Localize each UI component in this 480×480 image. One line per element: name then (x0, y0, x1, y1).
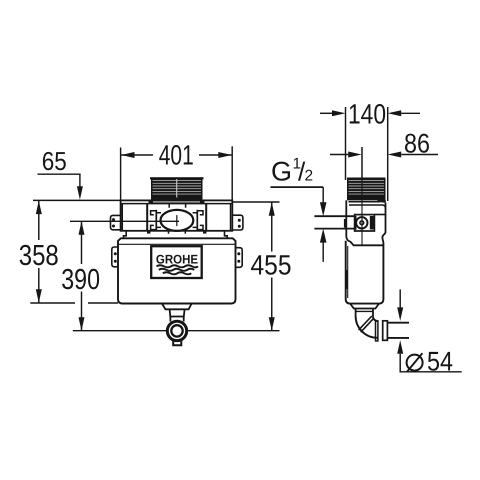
svg-text:65: 65 (42, 146, 67, 176)
side drain pipe bottom line (387, 337, 409, 339)
front valve top stubs (169, 204, 185, 208)
front outlet inner ring (171, 325, 182, 336)
front outlet neck lower (170, 317, 183, 322)
dim diameter 54 leader top (399, 289, 401, 308)
dim 140 arrow right (points left) (388, 110, 402, 116)
front outlet collar (162, 304, 191, 309)
dim 390 bottom reference line (73, 330, 280, 332)
front valve left bracket (151, 210, 161, 231)
dim 390 line upper segment (81, 221, 83, 264)
dim 86 extension (valve centerline top) (361, 147, 363, 180)
dim diameter 54 symbol slash (407, 353, 423, 372)
dim 358 bottom reference line (30, 302, 118, 304)
front thread block top cap (150, 177, 204, 179)
GROHE logo waves (157, 265, 199, 274)
side coupling ring (383, 321, 388, 341)
side drain pipe top line (387, 322, 409, 324)
front view: head outer rect (121, 200, 233, 230)
dim 140 line right (401, 112, 420, 114)
dim 86 arrow right (points left) (388, 152, 402, 158)
G 1/2 arrow down (320, 202, 327, 216)
dim 401 extension line right (231, 146, 233, 200)
side valve box right dark bar (370, 216, 374, 230)
dim 401 arrow left (121, 152, 135, 158)
side head right edge (385, 203, 387, 232)
G 1/2 label (271, 156, 313, 187)
dim 455 top extension (233, 201, 280, 203)
side head right step wiggle (382, 232, 385, 243)
G 1/2 underline (271, 186, 324, 188)
side body top edge (353, 244, 383, 246)
side body inner left seam (347, 246, 349, 298)
G 1/2 arrow up (320, 229, 327, 243)
side supply stub seal bar (344, 219, 346, 228)
svg-text:358: 358 (19, 240, 59, 272)
svg-text:455: 455 (251, 250, 292, 281)
svg-text:54: 54 (427, 346, 453, 376)
svg-text:140: 140 (348, 98, 386, 129)
dim 358 line lower segment (38, 268, 40, 303)
side body left seam detail (346, 270, 348, 289)
side elbow inner arc (373, 316, 378, 321)
dim 455 line lower segment (271, 278, 273, 331)
side elbow miter lines (359, 316, 374, 332)
side outlet collar (350, 304, 379, 309)
dim 358 arrow up (36, 201, 42, 215)
svg-text:G: G (271, 157, 292, 187)
front valve right bracket (193, 210, 203, 231)
dim 390 arrow up (79, 221, 85, 235)
front valve seat below ellipse (169, 231, 186, 234)
dim 65 ref line (38, 173, 81, 175)
dim diameter 54 symbol circle (407, 355, 423, 371)
front thread block stripes (153, 179, 202, 198)
dim 455 arrow down (269, 317, 275, 331)
front head inner top line (121, 203, 233, 205)
side centerline (361, 147, 363, 245)
dim diameter 54 arrow down (397, 307, 403, 321)
G 1/2 leader tail below (322, 242, 324, 261)
dim 86 arrow left (points right) (348, 152, 362, 158)
front upper-left mounting tab (111, 215, 121, 229)
side outlet vertical pipe (356, 309, 373, 317)
dim diameter 54 arrow up (397, 340, 403, 354)
front body lid seam (118, 243, 236, 245)
dim 140 arrow left (points right) (332, 110, 346, 116)
side body outline (346, 241, 384, 304)
side valve inner dot (360, 221, 364, 225)
side thread block stripes (349, 181, 385, 195)
dim 390 top reference centerline (70, 220, 179, 222)
side valve box (355, 215, 375, 231)
side head left edge upper (345, 200, 347, 236)
dim 401 arrow right (218, 152, 232, 158)
dim 65 arrow down (77, 186, 83, 200)
dim 390 arrow down (79, 317, 85, 331)
side supply stub bottom line (314, 228, 354, 230)
side elbow outer arc (356, 316, 378, 338)
dim 140 extension left (345, 107, 347, 180)
dim 401 line right segment (199, 154, 232, 156)
dim 140 line left (320, 112, 332, 114)
side head lid second line (349, 205, 386, 209)
front head inner verticals (122, 204, 230, 231)
side outlet pipe joint line (356, 310, 373, 312)
dim 401 line left segment (121, 154, 153, 156)
side valve box left dark bar (355, 216, 357, 230)
svg-text:2: 2 (305, 168, 314, 185)
front lower-left tab holes (114, 252, 117, 255)
front valve ellipse (161, 210, 194, 231)
dim diameter 54 leader bottom (400, 354, 462, 372)
side thread block (black) (347, 178, 386, 201)
svg-text:390: 390 (61, 264, 100, 296)
dim 65 leader line (79, 174, 81, 187)
front body (118, 238, 236, 303)
dim 86 line left (330, 154, 348, 156)
side supply stub top line (314, 215, 354, 217)
side valve box connector line (374, 214, 385, 216)
svg-text:401: 401 (159, 140, 194, 171)
dim 358 arrow down (36, 289, 42, 303)
dim 86 line right (401, 154, 438, 156)
side valve circle (356, 217, 367, 228)
front outlet bottom foot (173, 341, 181, 345)
front thread flange (black) (149, 200, 205, 204)
dim 390 line lower segment (81, 292, 83, 331)
front valve crosshair (176, 215, 178, 226)
G 1/2 leader down (322, 187, 324, 203)
dim 401 extension line left (120, 148, 122, 201)
dim 455 line upper segment (271, 202, 273, 251)
front outlet neck upper (170, 309, 185, 316)
front neck below head (124, 231, 228, 239)
side head left edge lower + chamfer (346, 237, 353, 246)
dim 358 line upper segment (38, 201, 40, 240)
front lower-right tab holes (237, 252, 240, 255)
dim 455 arrow up (269, 202, 275, 216)
front valve box corner marks (147, 231, 150, 234)
front lower-right mounting tab (236, 248, 243, 268)
side head lid wedge (black) (378, 200, 386, 203)
GROHE logo plate (151, 246, 202, 278)
svg-text:86: 86 (404, 128, 430, 158)
front upper-right tab holes (238, 219, 241, 222)
front valve box verticals (147, 204, 206, 231)
front thread block (black) (151, 178, 203, 201)
svg-text:GROHE: GROHE (156, 252, 198, 266)
side coupling first bar (376, 321, 378, 341)
front outlet outer ring (167, 321, 186, 340)
front lower-left mounting tab (112, 247, 118, 267)
front upper-right mounting tab (232, 215, 243, 230)
front upper-left tab holes (112, 218, 115, 221)
dim 140 extension right (387, 107, 389, 201)
dim 358 top reference line (33, 199, 121, 201)
side head lid line (349, 201, 381, 203)
